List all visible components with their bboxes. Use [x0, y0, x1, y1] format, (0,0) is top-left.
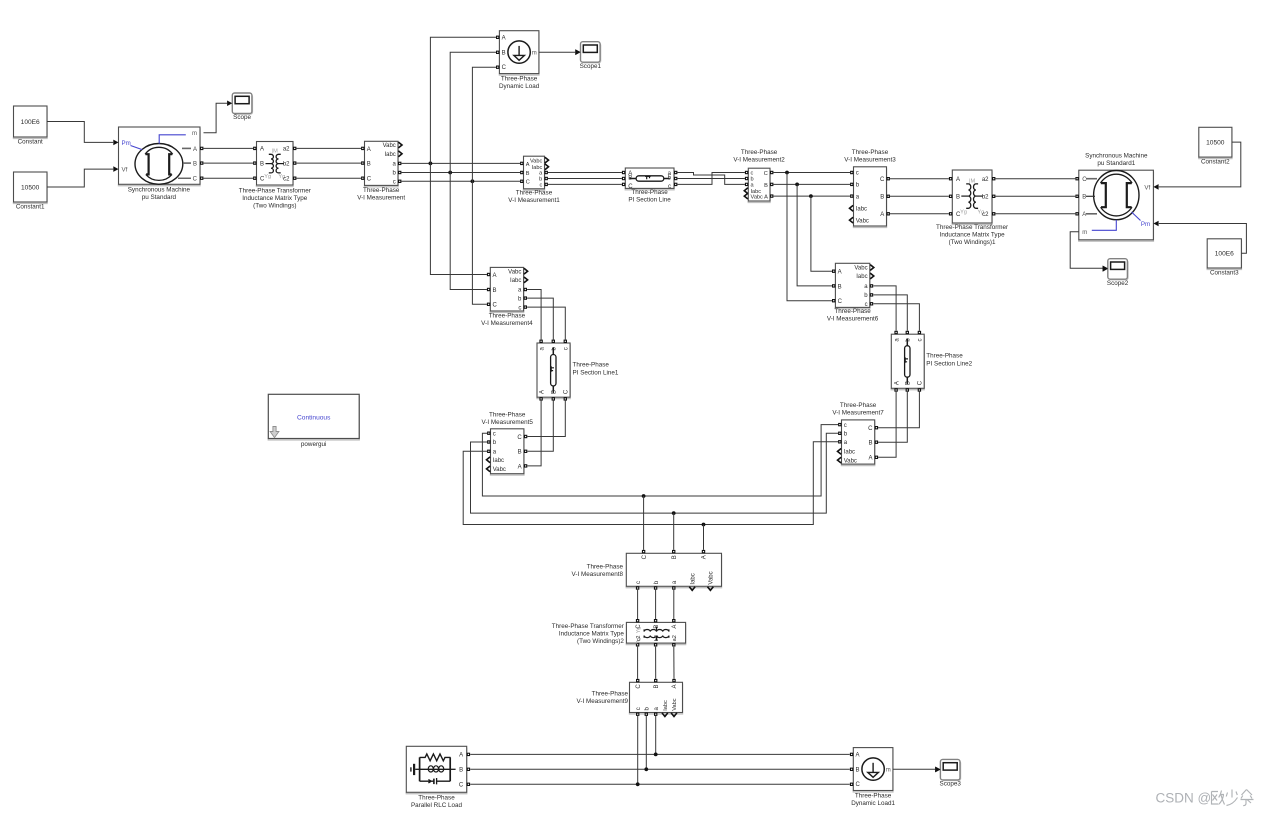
machine blue measurement line [159, 135, 186, 144]
svg-text:Iabc: Iabc [690, 573, 696, 584]
svg-text:A: A [1082, 212, 1086, 218]
junction bus A to Meas8 [702, 523, 706, 527]
svg-text:B: B [1082, 195, 1086, 201]
svg-text:C: C [880, 177, 885, 183]
wire Meas5 a to bus row A [463, 442, 838, 525]
scope block Scope3 [942, 761, 962, 782]
svg-text:Constant3: Constant3 [1210, 270, 1239, 277]
wire junction a down to Meas4 A [430, 163, 487, 274]
svg-text:Three-Phase: Three-Phase [834, 308, 871, 315]
svg-text:A: A [880, 212, 884, 218]
junction bus B to Meas8 [672, 511, 676, 515]
svg-text:A: A [764, 195, 768, 201]
svg-text:B: B [518, 450, 522, 456]
three-phase parallel RLC load [406, 748, 466, 794]
svg-text:a2: a2 [982, 177, 989, 183]
svg-text:V-I Measurement8: V-I Measurement8 [572, 571, 624, 578]
scope block Scope1 [582, 43, 602, 64]
machine1 blue Pm pointer line [1132, 212, 1141, 221]
svg-text:B: B [672, 555, 678, 559]
svg-text:B: B [764, 183, 768, 189]
constant block Constant2 value 10500 [1199, 129, 1232, 159]
svg-text:Vabc: Vabc [493, 467, 506, 473]
svg-text:Three-Phase: Three-Phase [516, 190, 553, 197]
svg-text:100E6: 100E6 [1215, 251, 1234, 258]
three-phase V-I measurement V-I Measurement5 (mirrored) [491, 430, 524, 475]
svg-text:Vabc: Vabc [854, 266, 867, 272]
wire junction A2 down to Meas6 A [811, 196, 832, 271]
svg-text:powergui: powergui [301, 441, 327, 448]
svg-text:PI Section Line1: PI Section Line1 [573, 370, 619, 377]
wire junction B2 down to Meas6 B [797, 184, 832, 286]
wires machine ABC to transformer [204, 147, 254, 149]
svg-text:m: m [192, 131, 197, 137]
svg-text:Dynamic Load1: Dynamic Load1 [851, 800, 895, 807]
svg-text:C: C [636, 684, 642, 689]
svg-text:A: A [894, 381, 900, 385]
wire Constant to machine Pm [47, 122, 113, 143]
svg-text:C: C [260, 177, 265, 183]
svg-text:A: A [672, 684, 678, 688]
bottom bus row B [470, 768, 850, 770]
three-phase transformer Transformer1 [952, 171, 992, 224]
svg-text:C: C [367, 177, 372, 183]
svg-text:m: m [886, 768, 891, 774]
svg-text:Constant: Constant [18, 139, 43, 146]
junction node b [448, 171, 452, 175]
svg-text:Constant2: Constant2 [1201, 159, 1230, 166]
svg-text:Vabc: Vabc [709, 571, 715, 584]
svg-text:Scope2: Scope2 [1107, 280, 1129, 287]
constant block Constant value 100E6 [14, 107, 48, 138]
wire Meas8 top C to bus [643, 496, 645, 550]
svg-text:V-I Measurement9: V-I Measurement9 [577, 698, 629, 705]
svg-text:Three-Phase: Three-Phase [741, 149, 778, 156]
svg-text:A: A [702, 555, 708, 559]
svg-text:(Two Windings)2: (Two Windings)2 [577, 638, 624, 645]
svg-text:Three-Phase: Three-Phase [631, 189, 668, 196]
svg-text:B: B [628, 176, 632, 182]
svg-text:V-I Measurement4: V-I Measurement4 [481, 320, 533, 327]
machine pin Vf [113, 166, 118, 172]
svg-text:Vf: Vf [1144, 184, 1150, 191]
svg-text:Vf: Vf [122, 167, 128, 174]
svg-text:C: C [956, 212, 961, 218]
wire Meas5 c to bus row C [482, 425, 838, 496]
svg-text:Vabc: Vabc [672, 698, 678, 711]
wires Meas3 CBA to transformer1 ABC [890, 178, 949, 180]
svg-text:Iabc: Iabc [510, 278, 521, 284]
svg-text:Three-Phase: Three-Phase [855, 793, 892, 800]
wires transformer1 outputs to machine1 [996, 178, 1076, 180]
svg-text:Iabc: Iabc [384, 152, 395, 158]
svg-text:B: B [493, 288, 497, 294]
svg-text:A: A [672, 625, 678, 629]
svg-text:pu Standard: pu Standard [142, 194, 177, 201]
svg-text:C: C [838, 299, 843, 305]
junction node A2 [809, 194, 813, 198]
svg-text:m: m [532, 51, 537, 57]
svg-text:V-I Measurement7: V-I Measurement7 [832, 410, 884, 417]
three-phase V-I measurement V-I Measurement7 (mirrored) [842, 421, 875, 465]
wire junction c up to dynamic load C [472, 67, 496, 181]
svg-text:Vabc: Vabc [508, 269, 521, 275]
svg-text:Yg: Yg [264, 174, 271, 180]
wire Meas9 b to bus B [645, 716, 647, 769]
svg-text:C: C [493, 303, 498, 309]
three-phase V-I measurement V-I Measurement4 [490, 269, 523, 313]
svg-text:PI Section Line: PI Section Line [628, 197, 671, 204]
svg-text:A: A [459, 753, 463, 759]
svg-text:c: c [518, 305, 521, 311]
svg-text:B: B [868, 441, 872, 447]
svg-text:Yg: Yg [960, 209, 967, 215]
wire Meas9 a to bus A [655, 716, 657, 755]
three-phase V-I measurement V-I Measurement1 [524, 158, 545, 191]
svg-text:Yg: Yg [636, 638, 642, 645]
wire dynamic load1 m to Scope3 [893, 768, 935, 770]
wires PI line1 bottom to Meas5 CBA [527, 401, 541, 466]
wire machine m to Scope [204, 103, 228, 133]
svg-text:Inductance Matrix Type: Inductance Matrix Type [559, 630, 624, 637]
svg-text:Scope1: Scope1 [580, 63, 602, 70]
svg-text:A: A [539, 390, 545, 394]
scope block Scope [234, 94, 254, 115]
three-phase transformer Transformer2 (rotated) [626, 624, 685, 645]
svg-text:V-I Measurement6: V-I Measurement6 [827, 316, 879, 323]
svg-text:C: C [856, 782, 861, 788]
svg-text:C: C [564, 389, 570, 394]
machine1 blue measurement line [1092, 220, 1117, 230]
three-phase V-I measurement V-I Measurement6 [835, 265, 869, 309]
three-phase dynamic load Dynamic Load1 [853, 749, 893, 792]
svg-text:B: B [260, 161, 264, 167]
svg-text:Constant1: Constant1 [16, 204, 45, 211]
junction bus C to Meas8 [642, 494, 646, 498]
svg-text:Three-Phase Transformer: Three-Phase Transformer [239, 187, 311, 194]
wire VIM b to Meas1 B with junction [402, 172, 521, 174]
machine pin Pm (input) [113, 140, 118, 146]
svg-text:B: B [838, 284, 842, 290]
three-phase PI section line PI Section Line2 (vertical) [891, 336, 924, 390]
three-phase V-I measurement V-I Measurement8 (rotated) [626, 555, 721, 588]
scope block Scope2 [1109, 260, 1129, 281]
svg-text:Scope3: Scope3 [940, 781, 962, 788]
svg-text:CSDN @: CSDN @ [1156, 791, 1212, 806]
svg-text:A: A [856, 753, 860, 759]
svg-text:c: c [865, 302, 868, 308]
svg-text:C: C [764, 171, 768, 177]
wires Meas4 abc to PI line1 top [527, 290, 541, 340]
constant block Constant3 value 100E6 [1207, 240, 1241, 269]
svg-text:B: B [459, 768, 463, 774]
powergui block [268, 396, 359, 440]
svg-text:C: C [459, 783, 464, 789]
three-phase dynamic load Dynamic Load [499, 32, 539, 75]
svg-text:Vabc: Vabc [751, 194, 764, 200]
wires PI line2 bottom to Meas7 CBA [878, 392, 896, 458]
RLC B lead [450, 768, 455, 770]
svg-text:B: B [502, 51, 506, 57]
wire machine1 m to Scope2 [1070, 232, 1102, 268]
svg-text:c: c [668, 184, 671, 190]
svg-text:Dynamic Load: Dynamic Load [499, 83, 540, 90]
svg-text:pu Standard1: pu Standard1 [1097, 160, 1135, 167]
svg-text:A: A [518, 464, 522, 470]
wire Constant1 to machine Vf [47, 169, 113, 187]
svg-text:Three-Phase: Three-Phase [418, 795, 455, 802]
svg-text:A: A [868, 456, 872, 462]
wire PI line c to Meas2 c (stepped up) [677, 173, 745, 185]
svg-text:Inductance Matrix Type: Inductance Matrix Type [242, 195, 307, 202]
svg-text:m: m [1082, 230, 1087, 236]
svg-text:V-I Measurement2: V-I Measurement2 [733, 157, 785, 164]
svg-text:B: B [367, 162, 371, 168]
svg-text:Synchronous Machine: Synchronous Machine [1085, 153, 1148, 160]
synchronous machine U-SM1 [119, 128, 201, 185]
svg-text:Parallel RLC Load: Parallel RLC Load [411, 802, 463, 809]
svg-text:Three-Phase: Three-Phase [852, 149, 889, 156]
svg-text:c: c [918, 339, 924, 342]
RLC resistor branch [420, 754, 451, 761]
svg-text:Vabc: Vabc [383, 143, 396, 149]
bottom bus row C [470, 783, 850, 785]
svg-text:PI Section Line2: PI Section Line2 [926, 360, 972, 367]
svg-text:B: B [552, 390, 558, 394]
svg-text:V-I Measurement5: V-I Measurement5 [481, 419, 533, 426]
svg-text:Iabc: Iabc [844, 450, 855, 456]
svg-text:A: A [956, 177, 960, 183]
wires Meas8 bottom to transformer2 [637, 590, 639, 619]
RLC parallel rails [420, 757, 451, 781]
svg-text:c: c [856, 171, 859, 177]
wire PI line a to Meas2 a (stepped) [677, 173, 745, 185]
svg-text:V-I Measurement: V-I Measurement [357, 194, 405, 201]
wire VIM c to Meas1 C with junction [402, 180, 521, 182]
svg-text:Three-Phase Transformer: Three-Phase Transformer [936, 224, 1008, 231]
svg-text:c: c [636, 581, 642, 584]
svg-text:B: B [654, 684, 660, 688]
svg-text:B: B [956, 195, 960, 201]
bottom bus row A [470, 753, 850, 755]
wire Meas5 b to bus row B [471, 433, 839, 513]
svg-text:c2: c2 [982, 212, 989, 218]
svg-text:c: c [540, 183, 543, 189]
wire Meas8 top A to bus [703, 525, 705, 550]
wire PI line b to Meas2 b [677, 178, 745, 180]
wires transformer a2b2c2 to V-I measurement [297, 147, 362, 149]
svg-text:C: C [517, 435, 522, 441]
wire junction C2 down to Meas6 C [787, 173, 832, 301]
wire Meas2 B to Meas3 b with junction [773, 183, 850, 185]
svg-text:Three-Phase: Three-Phase [926, 352, 963, 359]
svg-text:|M: |M [272, 149, 278, 155]
svg-text:B: B [880, 195, 884, 201]
wire Meas8 top B to bus [673, 513, 675, 550]
wires transformer2 bottom to Meas9 top [637, 647, 639, 679]
svg-text:b2: b2 [982, 195, 989, 201]
wire dynamic load m to Scope1 [539, 51, 575, 53]
wire junction c down to Meas4 C [472, 181, 487, 304]
svg-text:B: B [856, 768, 860, 774]
RLC inductor branch [420, 768, 451, 770]
svg-text:A: A [493, 273, 497, 279]
svg-text:C: C [868, 426, 873, 432]
svg-text:(Two Windings)1: (Two Windings)1 [949, 239, 996, 246]
svg-text:b2: b2 [283, 161, 290, 167]
svg-text:c: c [493, 431, 496, 437]
svg-text:C: C [526, 180, 530, 186]
transformer2 winding icon [644, 629, 669, 631]
wire junction a up to dynamic load A [430, 37, 496, 163]
wire Constant2 to machine1 Vf [1159, 142, 1241, 187]
junction node a [429, 162, 433, 166]
svg-text:C: C [918, 380, 924, 385]
svg-text:|M: |M [969, 178, 975, 184]
svg-text:c: c [636, 707, 642, 710]
three-phase V-I measurement V-I Measurement3 (mirrored) [854, 168, 887, 227]
RLC capacitor branch [420, 778, 451, 784]
svg-text:A: A [502, 36, 506, 42]
svg-text:Three-Phase: Three-Phase [489, 411, 526, 418]
wire junction b up to dynamic load B [450, 52, 496, 172]
svg-text:Iabc: Iabc [663, 700, 669, 711]
svg-text:Three-Phase: Three-Phase [573, 362, 610, 369]
svg-text:A: A [367, 147, 371, 153]
powergui gray arrow [270, 427, 279, 438]
svg-text:A: A [193, 147, 197, 153]
svg-text:B: B [193, 162, 197, 168]
three-phase PI section line PI Section Line1 (vertical) [537, 344, 570, 398]
svg-text:V-I Measurement1: V-I Measurement1 [508, 197, 560, 204]
svg-text:100E6: 100E6 [21, 119, 40, 126]
svg-text:Three-Phase: Three-Phase [587, 563, 624, 570]
machine blue Pm pointer line [131, 146, 143, 150]
junction node c [471, 179, 475, 183]
constant block Constant1 value 10500 [14, 173, 48, 203]
synchronous machine U-SM2 [1079, 172, 1154, 242]
svg-text:Iabc: Iabc [493, 458, 504, 464]
wires Meas1 abc to PI section line [548, 172, 622, 174]
svg-text:a2: a2 [672, 635, 678, 641]
wire Constant3 to machine1 Pm [1159, 224, 1247, 254]
three-phase transformer Transformer [257, 143, 294, 187]
svg-text:Three-Phase: Three-Phase [840, 402, 877, 409]
svg-text:A: A [260, 147, 264, 153]
wire junction b down to Meas4 B [450, 173, 487, 290]
svg-text:c: c [844, 423, 847, 429]
svg-text:V-I Measurement3: V-I Measurement3 [844, 157, 896, 164]
svg-text:Vabc: Vabc [856, 218, 869, 224]
svg-text:C: C [1082, 177, 1087, 183]
svg-text:Three-Phase: Three-Phase [592, 690, 629, 697]
three-phase PI section line PI Section Line [625, 169, 674, 189]
wire Meas2 A to Meas3 a with junction [773, 195, 850, 197]
svg-text:Continuous: Continuous [297, 414, 331, 421]
three-phase V-I measurement V-I Measurement2 (mirrored) [748, 170, 770, 203]
svg-text:a2: a2 [283, 147, 290, 153]
wire VIM a to Meas1 A with junction [402, 162, 521, 164]
svg-text:C: C [193, 177, 198, 183]
svg-text:C: C [642, 554, 648, 559]
svg-text:A: A [838, 270, 842, 276]
svg-text:Yg: Yg [636, 627, 642, 634]
svg-text:Three-Phase: Three-Phase [489, 312, 526, 319]
svg-text:c: c [393, 180, 396, 186]
svg-text:Three-Phase: Three-Phase [501, 75, 538, 82]
svg-text:Three-Phase Transformer: Three-Phase Transformer [552, 623, 624, 630]
svg-text:C: C [502, 65, 507, 71]
junction node C2 [785, 171, 789, 175]
three-phase V-I measurement V-I Measurement9 (rotated) [630, 684, 683, 714]
svg-text:Vabc: Vabc [844, 458, 857, 464]
wires Meas6 abc to PI line2 top [873, 286, 896, 331]
wire Meas2 C to Meas3 c with junction [773, 172, 850, 174]
svg-text:B: B [906, 381, 912, 385]
svg-text:Scope: Scope [233, 114, 251, 121]
svg-text:B: B [526, 171, 530, 177]
svg-text:Pm: Pm [122, 140, 131, 147]
wire Meas9 c to bus C [637, 716, 639, 784]
machine1 pin Vf [1153, 184, 1158, 190]
svg-text:(Two Windings): (Two Windings) [253, 202, 296, 209]
junction node B2 [795, 183, 799, 187]
svg-text:10500: 10500 [1206, 140, 1225, 147]
svg-text:Iabc: Iabc [856, 207, 867, 213]
svg-text:10500: 10500 [21, 184, 40, 191]
svg-text:Inductance Matrix Type: Inductance Matrix Type [940, 232, 1005, 239]
machine1 pin Pm blue [1153, 221, 1158, 227]
RLC ground symbol [410, 767, 412, 771]
svg-text:Vabc: Vabc [530, 158, 543, 164]
svg-text:c2: c2 [283, 177, 290, 183]
three-phase V-I measurement V-I Measurement [365, 143, 399, 187]
svg-text:Synchronous Machine: Synchronous Machine [128, 187, 191, 194]
svg-text:Iabc: Iabc [856, 274, 867, 280]
svg-text:Three-Phase: Three-Phase [363, 187, 400, 194]
svg-text:Pm: Pm [1141, 221, 1150, 228]
svg-text:c: c [564, 347, 570, 350]
